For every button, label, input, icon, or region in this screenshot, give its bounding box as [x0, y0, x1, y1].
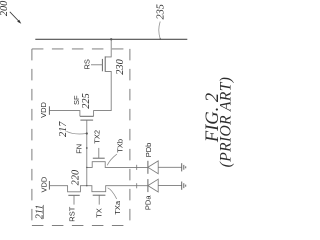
svg-text:RST: RST — [68, 206, 77, 221]
svg-text:TXb: TXb — [116, 139, 125, 153]
svg-text:230: 230 — [115, 58, 126, 74]
svg-text:VDD: VDD — [39, 176, 48, 192]
svg-text:VDD: VDD — [39, 102, 48, 118]
svg-text:TXa: TXa — [113, 200, 122, 215]
svg-text:RS: RS — [82, 59, 91, 69]
svg-text:235: 235 — [155, 4, 166, 19]
svg-text:200: 200 — [0, 0, 10, 16]
svg-text:(PRIOR ART): (PRIOR ART) — [217, 77, 234, 168]
svg-text:211: 211 — [35, 205, 46, 220]
svg-text:SF: SF — [72, 95, 81, 105]
svg-text:220: 220 — [70, 169, 81, 185]
svg-text:FN: FN — [75, 144, 84, 154]
svg-text:TX2: TX2 — [93, 130, 102, 144]
svg-text:PDb: PDb — [144, 143, 153, 158]
svg-text:217: 217 — [58, 121, 69, 137]
svg-text:PDa: PDa — [143, 195, 152, 210]
svg-text:225: 225 — [81, 93, 92, 108]
svg-text:TX: TX — [94, 208, 103, 218]
